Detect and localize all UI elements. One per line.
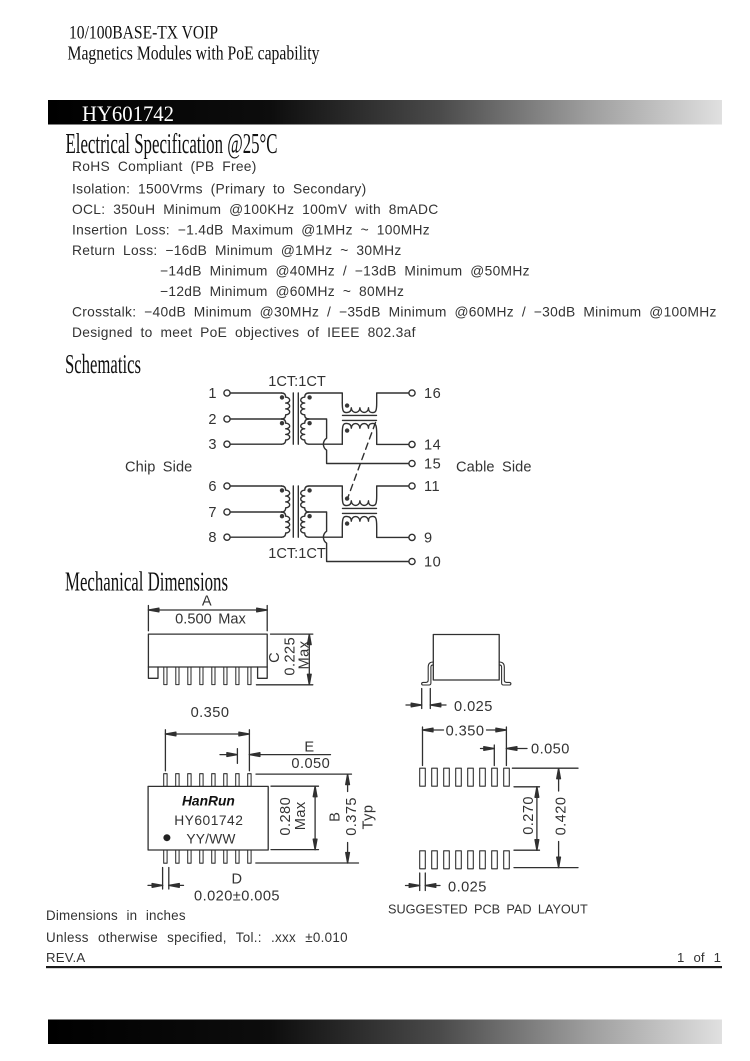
- pad dim 0.025 arrows: [406, 885, 441, 887]
- side view pin 1: [164, 667, 167, 685]
- svg-text:RoHS Compliant (PB Free): RoHS Compliant (PB Free): [72, 159, 257, 174]
- svg-text:Crosstalk: −40dB Minimum @30MH: Crosstalk: −40dB Minimum @30MHz / −35dB …: [72, 305, 717, 320]
- svg-text:9: 9: [424, 531, 433, 547]
- pin 7 terminal circle: [224, 509, 230, 515]
- dim E extension line: [236, 749, 238, 764]
- dashed core link between choke L1 and choke L2: [348, 423, 376, 499]
- pad layout bottom row pad 1: [420, 851, 426, 869]
- top view upper pin 7: [236, 774, 239, 787]
- side view pin 5: [212, 667, 215, 685]
- svg-text:0.270: 0.270: [521, 796, 537, 835]
- pad layout bottom row pad 7: [492, 851, 498, 869]
- choke L2 bottom winding dot: [345, 521, 349, 525]
- svg-text:Isolation: 1500Vrms (Primary t: Isolation: 1500Vrms (Primary to Secondar…: [72, 182, 367, 197]
- svg-text:0.280: 0.280: [278, 797, 294, 836]
- choke L1 top winding dot: [345, 403, 349, 407]
- wire pin 8 to T2: [230, 536, 281, 538]
- pad dim 0.050 arrows: [481, 748, 528, 750]
- side view pin 8: [248, 667, 251, 685]
- dim 0.280 dimension line: [314, 786, 316, 849]
- transformer T2 secondary winding lower half: [301, 512, 309, 537]
- pad layout bottom row pad 6: [480, 851, 486, 869]
- svg-text:Cable Side: Cable Side: [456, 460, 532, 476]
- svg-text:0.350: 0.350: [191, 705, 230, 721]
- svg-text:SUGGESTED PCB PAD LAYOUT: SUGGESTED PCB PAD LAYOUT: [388, 903, 588, 917]
- wire pin 6 to T2: [230, 485, 281, 487]
- wire T2 secondary center tap to pin 10 with crossover hop: [309, 512, 409, 562]
- dim A dimension line: [148, 609, 267, 611]
- svg-text:E: E: [304, 740, 314, 756]
- transformer T1 secondary winding upper half: [301, 393, 309, 419]
- svg-text:C: C: [267, 652, 283, 663]
- svg-text:7: 7: [208, 505, 217, 521]
- svg-text:REV.A: REV.A: [46, 950, 85, 965]
- top view upper pin 5: [212, 774, 215, 787]
- pin 10 terminal circle: [409, 558, 415, 564]
- svg-text:Dimensions in inches: Dimensions in inches: [46, 908, 186, 923]
- end view lead dim extension lines: [422, 689, 431, 709]
- top view upper pin 3: [188, 774, 191, 787]
- svg-text:Magnetics Modules with PoE cap: Magnetics Modules with PoE capability: [68, 44, 320, 65]
- pad dim 0.025 extension lines: [420, 873, 426, 891]
- dim 0.280 extension lines: [271, 786, 319, 849]
- top view lower pin 7: [236, 850, 239, 863]
- pad dim 0.270 extension lines: [514, 787, 540, 850]
- top view upper pin 6: [224, 774, 227, 787]
- pin 8 terminal circle: [224, 534, 230, 540]
- pad dim 0.050 extension line: [493, 745, 495, 766]
- dim E arrows and leader: [220, 754, 331, 756]
- pin 15 terminal circle: [409, 460, 415, 466]
- pin 9 terminal circle: [409, 534, 415, 540]
- end view body: [433, 635, 499, 681]
- svg-text:14: 14: [424, 438, 441, 454]
- wire pin 3 to T1: [230, 443, 281, 445]
- svg-text:−12dB Minimum @60MHz ~ 80MHz: −12dB Minimum @60MHz ~ 80MHz: [160, 284, 404, 299]
- pad dim 0.350 dimension line: [423, 729, 507, 731]
- pad layout bottom row pad 4: [456, 851, 462, 869]
- top view upper pin 2: [176, 774, 179, 787]
- svg-text:D: D: [232, 872, 243, 888]
- svg-text:Max: Max: [297, 640, 313, 669]
- pad layout top row pad 3: [444, 768, 450, 786]
- end view left gull-wing lead: [422, 662, 434, 685]
- side view right end tab: [258, 667, 268, 678]
- choke L1 bottom winding: [342, 423, 409, 444]
- svg-text:0.420: 0.420: [554, 797, 570, 836]
- svg-text:10/100BASE-TX VOIP: 10/100BASE-TX VOIP: [69, 22, 218, 43]
- pad layout top row pad 6: [480, 768, 486, 786]
- pin 2 terminal circle: [224, 416, 230, 422]
- choke L1 top winding: [342, 393, 409, 413]
- svg-text:YY/WW: YY/WW: [186, 832, 235, 847]
- pad layout top row pad 4: [456, 768, 462, 786]
- T2 primary polarity dots: [280, 488, 284, 492]
- svg-text:B: B: [327, 812, 343, 822]
- svg-text:A: A: [202, 594, 212, 610]
- svg-text:6: 6: [208, 479, 217, 495]
- end view right gull-wing lead: [499, 662, 511, 685]
- svg-text:Unless otherwise specified, To: Unless otherwise specified, Tol.: .xxx ±…: [46, 930, 348, 945]
- transformer T1 secondary winding lower half: [301, 419, 309, 444]
- pin 3 terminal circle: [224, 441, 230, 447]
- dim A extension lines: [148, 606, 267, 631]
- top view upper pin 4: [200, 774, 203, 787]
- top view body: [148, 786, 268, 850]
- pad dim 0.420 dimension line: [558, 768, 560, 867]
- choke L2 top winding dot: [345, 496, 349, 500]
- T1 secondary polarity dots: [307, 395, 311, 399]
- transformer T2 primary winding upper half: [282, 486, 290, 512]
- side view pin 7: [236, 667, 239, 685]
- svg-text:Insertion Loss: −1.4dB Maximum: Insertion Loss: −1.4dB Maximum @1MHz ~ 1…: [72, 223, 430, 238]
- svg-text:0.020±0.005: 0.020±0.005: [194, 889, 280, 905]
- transformer T1 core: [293, 393, 298, 444]
- wire T1 secondary bottom to choke L1: [309, 443, 342, 445]
- end view lead dim arrows: [406, 704, 446, 706]
- pad layout bottom row pad 8: [504, 851, 510, 869]
- pad layout bottom row pad 2: [432, 851, 438, 869]
- svg-text:8: 8: [208, 530, 217, 546]
- svg-text:0.500 Max: 0.500 Max: [175, 612, 246, 628]
- footer rule: [46, 966, 722, 968]
- pad layout top row pad 8: [504, 768, 510, 786]
- side view pin 3: [188, 667, 191, 685]
- dim B dimension line: [347, 774, 349, 863]
- top view upper pin 8: [248, 774, 251, 787]
- svg-text:Max: Max: [293, 801, 309, 830]
- header gradient bar: [48, 100, 722, 125]
- svg-text:0.050: 0.050: [531, 742, 570, 758]
- svg-text:10: 10: [424, 555, 441, 571]
- svg-text:HY601742: HY601742: [174, 813, 243, 828]
- top view lower pin 2: [176, 850, 179, 863]
- pad dim 0.420 extension lines: [512, 768, 578, 867]
- svg-text:16: 16: [424, 386, 441, 402]
- top view lower pin 1: [164, 850, 167, 863]
- pad layout top row pad 1: [420, 768, 426, 786]
- svg-text:3: 3: [208, 437, 217, 453]
- svg-text:0.375: 0.375: [344, 797, 360, 836]
- transformer T1 primary winding upper half: [282, 393, 290, 419]
- pin 1 terminal circle: [224, 390, 230, 396]
- dim C extension lines: [256, 634, 312, 685]
- side view body: [148, 634, 267, 667]
- choke L2 bottom winding: [342, 516, 409, 537]
- dim 0.350 dimension line (top view): [165, 733, 249, 735]
- T1 primary polarity dots: [280, 395, 284, 399]
- svg-text:0.050: 0.050: [291, 756, 330, 772]
- top view lower pin 4: [200, 850, 203, 863]
- top view lower pin 3: [188, 850, 191, 863]
- side view left end tab: [148, 667, 158, 678]
- svg-text:1: 1: [208, 386, 217, 402]
- svg-text:OCL: 350uH Minimum @100KHz 100: OCL: 350uH Minimum @100KHz 100mV with 8m…: [72, 202, 439, 217]
- svg-text:Electrical Specification @25°C: Electrical Specification @25°C: [66, 129, 278, 160]
- wire pin 7 to T2: [230, 511, 281, 513]
- svg-text:0.025: 0.025: [448, 880, 487, 896]
- svg-text:Typ: Typ: [361, 805, 377, 830]
- svg-text:0.350: 0.350: [446, 724, 485, 740]
- pin 16 terminal circle: [409, 390, 415, 396]
- wire pin 1 to T1: [230, 392, 281, 394]
- svg-text:1CT:1CT: 1CT:1CT: [268, 374, 326, 390]
- svg-text:−14dB Minimum @40MHz / −13dB M: −14dB Minimum @40MHz / −13dB Minimum @50…: [160, 264, 530, 279]
- pad layout top row pad 2: [432, 768, 438, 786]
- wire T2 secondary top to choke L2: [309, 486, 342, 496]
- dim B extension lines: [256, 774, 359, 863]
- spec list: [72, 159, 717, 340]
- pad dim 0.350 extension lines: [423, 727, 507, 766]
- svg-text:HanRun: HanRun: [182, 794, 235, 809]
- svg-text:Schematics: Schematics: [65, 349, 141, 379]
- svg-text:1CT:1CT: 1CT:1CT: [268, 546, 326, 562]
- svg-text:0.025: 0.025: [454, 699, 493, 715]
- svg-text:2: 2: [208, 412, 217, 428]
- pad layout top row pad 5: [468, 768, 474, 786]
- pad dim 0.270 dimension line: [536, 787, 538, 850]
- transformer T2 primary winding lower half: [282, 512, 290, 537]
- pad layout bottom row pad 5: [468, 851, 474, 869]
- choke L2 core: [343, 508, 377, 513]
- transformer T2 core: [293, 486, 298, 537]
- side view pin 6: [224, 667, 227, 685]
- svg-text:Chip Side: Chip Side: [125, 460, 192, 476]
- top view lower pin 6: [224, 850, 227, 863]
- top view lower pin 8: [248, 850, 251, 863]
- wire pin 2 to T1: [230, 418, 281, 420]
- side view pin 4: [200, 667, 203, 685]
- side view pin 2: [176, 667, 179, 685]
- wire T2 secondary bottom to choke L2: [309, 536, 342, 538]
- svg-text:15: 15: [424, 457, 441, 473]
- top view lower pin 5: [212, 850, 215, 863]
- T2 secondary polarity dots: [307, 488, 311, 492]
- svg-text:Mechanical Dimensions: Mechanical Dimensions: [65, 567, 228, 597]
- wire T1 secondary center tap to pin 15 with crossover hop: [309, 419, 409, 464]
- dim D extension lines: [163, 868, 169, 890]
- dim C dimension line: [308, 634, 310, 685]
- choke L1 bottom winding dot: [345, 428, 349, 432]
- footer gradient bar: [48, 1020, 722, 1045]
- pin 14 terminal circle: [409, 441, 415, 447]
- wire T1 secondary top to choke L1: [309, 393, 342, 403]
- choke L1 core: [343, 415, 377, 420]
- choke L2 top winding: [342, 486, 409, 506]
- svg-text:11: 11: [424, 479, 440, 495]
- pad layout bottom row pad 3: [444, 851, 450, 869]
- pin 11 terminal circle: [409, 483, 415, 489]
- top view upper pin 1: [164, 774, 167, 787]
- transformer T1 primary winding lower half: [282, 419, 290, 444]
- svg-text:Designed to meet PoE objective: Designed to meet PoE objectives of IEEE …: [72, 325, 416, 340]
- svg-text:1 of 1: 1 of 1: [677, 950, 721, 965]
- dim 0.350 extension lines (top view): [165, 730, 249, 771]
- transformer T2 secondary winding upper half: [301, 486, 309, 512]
- dim D arrows: [148, 884, 184, 886]
- svg-text:HY601742: HY601742: [82, 101, 174, 126]
- pin 6 terminal circle: [224, 483, 230, 489]
- pad layout top row pad 7: [492, 768, 498, 786]
- pin 1 marking dot: [163, 834, 170, 841]
- svg-text:Return Loss: −16dB Minimum @1M: Return Loss: −16dB Minimum @1MHz ~ 30MHz: [72, 243, 402, 258]
